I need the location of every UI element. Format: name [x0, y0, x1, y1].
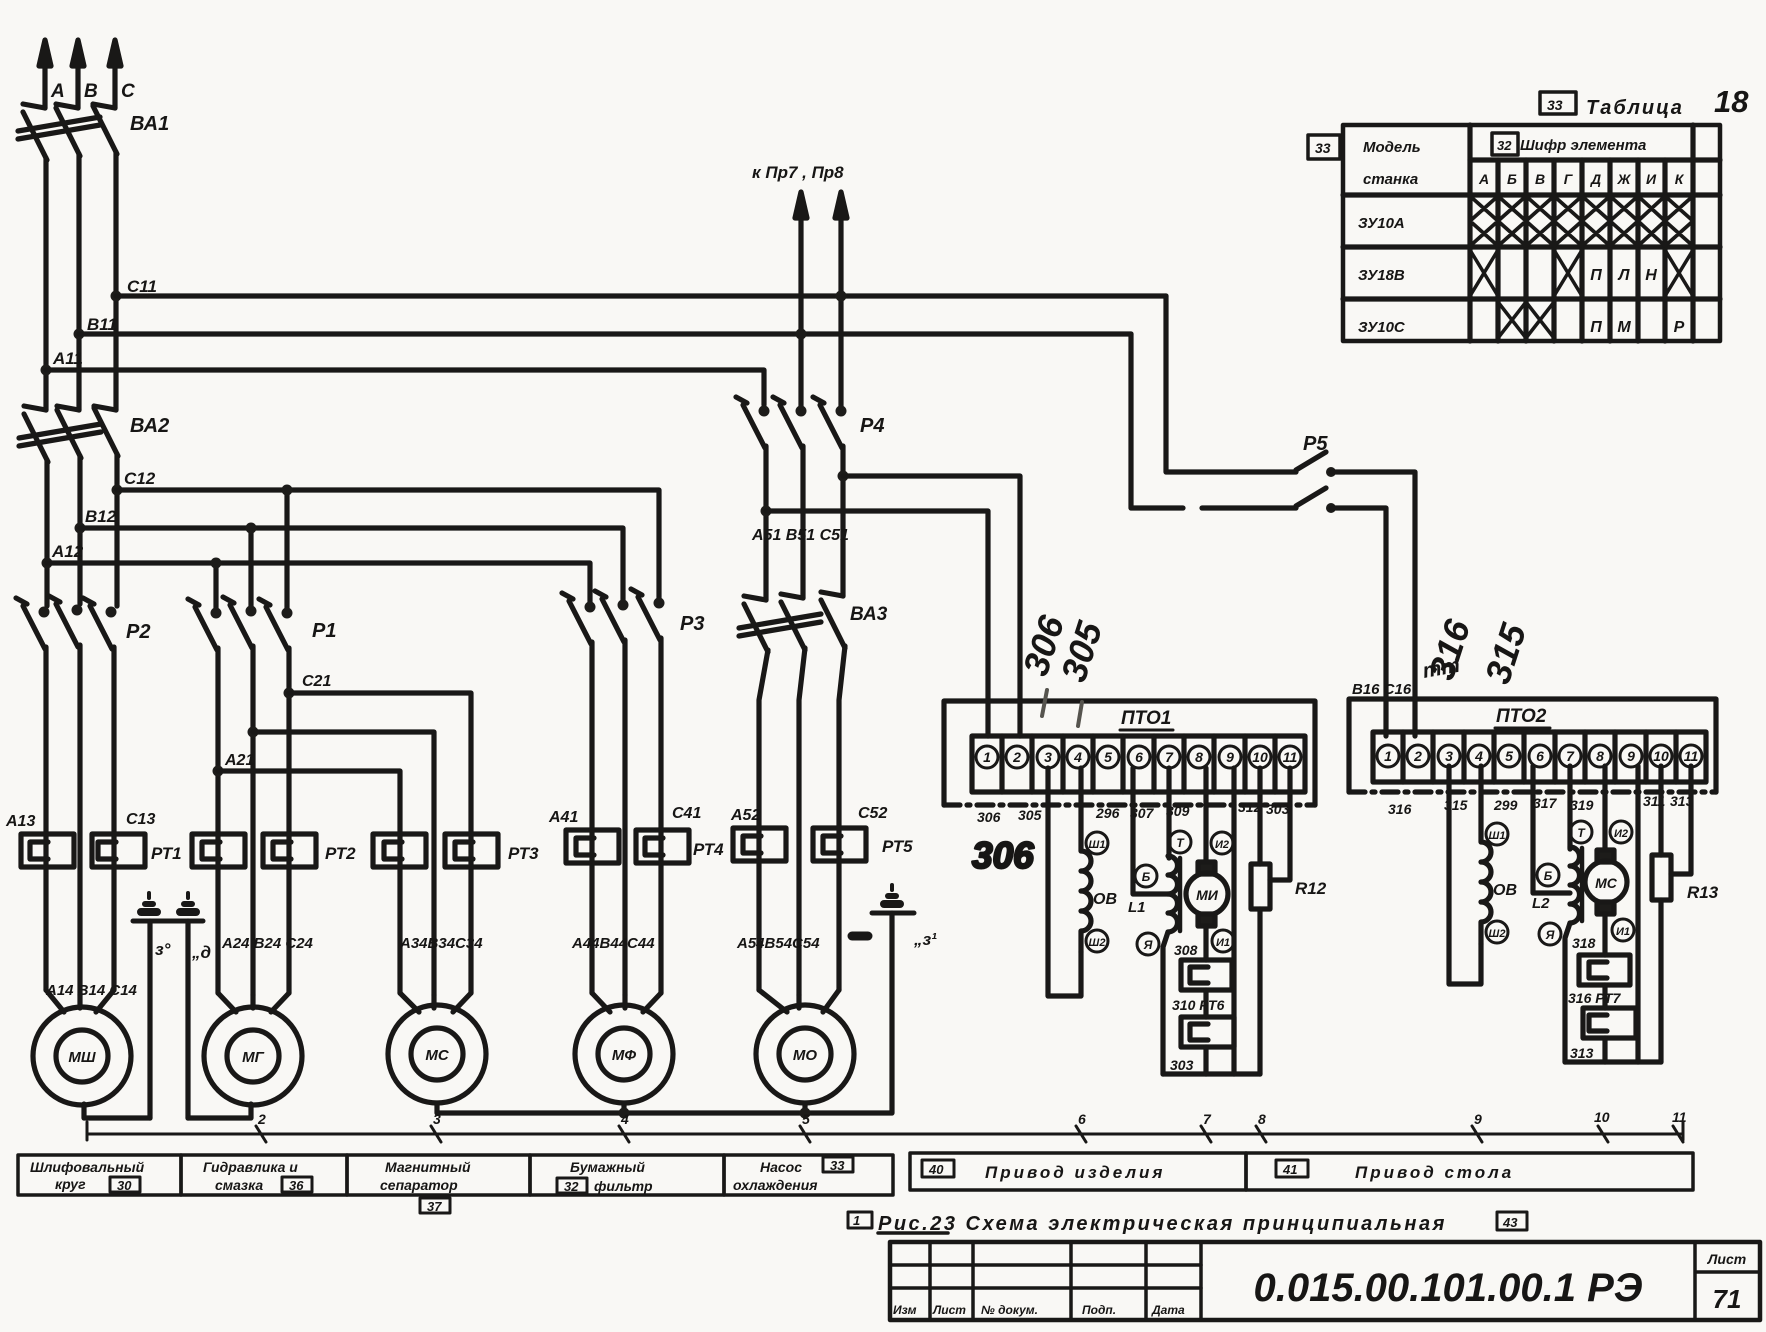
- contactor P2: [16, 596, 117, 649]
- svg-text:9: 9: [1226, 749, 1234, 765]
- terminal block PTO1 outer box: [944, 701, 1315, 805]
- thermal relay RT3 heater A: [373, 834, 426, 867]
- wire BA3 phase A to RT5: [759, 650, 768, 990]
- dc motor MC: [1585, 766, 1634, 955]
- svg-text:Гидравлика и: Гидравлика и: [203, 1159, 298, 1175]
- function box 3 magnetic separator: [347, 1155, 530, 1214]
- svg-text:МШ: МШ: [68, 1049, 95, 1066]
- svg-text:33: 33: [1547, 97, 1563, 113]
- choke L1: [1128, 768, 1191, 1074]
- svg-text:И: И: [1646, 171, 1657, 187]
- svg-text:№ докум.: № докум.: [981, 1303, 1038, 1317]
- svg-text:Я: Я: [1143, 938, 1153, 952]
- svg-text:316: 316: [1388, 801, 1412, 817]
- pin label B (PTO1): [1135, 865, 1157, 887]
- svg-text:303: 303: [1266, 801, 1290, 817]
- thermal relay RT7 heater 1: [1579, 955, 1630, 985]
- svg-text:1: 1: [983, 749, 991, 765]
- field coil OB (PTO1): [1081, 768, 1117, 952]
- svg-text:5: 5: [1104, 749, 1112, 765]
- thermal relay RT2 heater A: [192, 834, 245, 867]
- svg-text:МС: МС: [1595, 875, 1618, 891]
- table ref box 33 left: [1308, 135, 1340, 159]
- svg-text:L1: L1: [1128, 899, 1146, 916]
- wire P4 phase C to BA3: [840, 446, 845, 596]
- svg-text:МО: МО: [793, 1047, 817, 1064]
- svg-text:Насос: Насос: [760, 1159, 802, 1175]
- wire P3 phase C to RT4: [658, 638, 663, 993]
- svg-text:4: 4: [1474, 748, 1483, 764]
- motor M3 (magnetic separator): [388, 993, 486, 1103]
- svg-text:Р4: Р4: [860, 415, 884, 437]
- thermal relay RT2 heater C: [263, 834, 316, 867]
- svg-text:Ш1: Ш1: [1089, 839, 1106, 851]
- svg-text:станка: станка: [1363, 171, 1418, 188]
- svg-text:310 РТ6: 310 РТ6: [1172, 997, 1225, 1013]
- svg-text:7: 7: [1203, 1111, 1212, 1127]
- svg-text:306: 306: [972, 835, 1034, 876]
- phase input arrows A B C: [39, 40, 121, 108]
- svg-text:32: 32: [1497, 138, 1512, 153]
- svg-text:С41: С41: [672, 805, 701, 822]
- motor M4 (paper filter): [575, 993, 673, 1103]
- svg-text:РТ4: РТ4: [693, 840, 724, 859]
- svg-text:33: 33: [1315, 140, 1331, 156]
- svg-text:30: 30: [117, 1178, 132, 1193]
- wire P4 phase A to BA3: [763, 446, 768, 600]
- svg-text:Шлифовальный: Шлифовальный: [30, 1159, 145, 1175]
- svg-text:Шифр элемента: Шифр элемента: [1520, 137, 1646, 154]
- handwritten 306 305 tilted: [1015, 610, 1111, 687]
- svg-text:ВА2: ВА2: [130, 415, 169, 437]
- svg-text:37: 37: [427, 1199, 442, 1214]
- row ZU18V marks: [1470, 250, 1693, 296]
- svg-text:8: 8: [1596, 748, 1604, 764]
- svg-text:А: А: [50, 81, 65, 102]
- svg-text:ПТО2: ПТО2: [1496, 706, 1547, 727]
- wire P3 phase B to motor M4: [622, 640, 627, 995]
- row ZU10A X marks: [1470, 196, 1693, 246]
- svg-text:9: 9: [1627, 748, 1635, 764]
- svg-text:охлаждения: охлаждения: [733, 1177, 818, 1193]
- wire to fuses Pr7 Pr8: [795, 192, 847, 411]
- svg-text:308: 308: [1174, 942, 1198, 958]
- svg-text:41: 41: [1282, 1162, 1297, 1177]
- svg-text:3: 3: [1445, 748, 1453, 764]
- svg-text:ВА1: ВА1: [130, 113, 169, 135]
- svg-text:ОВ: ОВ: [1493, 882, 1517, 899]
- thermal relay RT4 heater C: [636, 830, 689, 863]
- node Pr8 tap on C11: [836, 291, 847, 302]
- svg-text:„з¹: „з¹: [913, 930, 937, 949]
- svg-text:МИ: МИ: [1196, 887, 1219, 903]
- svg-text:ЗУ10А: ЗУ10А: [1358, 215, 1405, 232]
- wire phase C from BA2 to P2: [114, 454, 119, 606]
- svg-text:А41: А41: [548, 809, 578, 826]
- svg-text:Т: Т: [1176, 836, 1185, 850]
- table Tablitsa 18: [1343, 125, 1720, 341]
- wire PTO2 t3 loop to OB coil: [1449, 766, 1481, 984]
- svg-text:Ш2: Ш2: [1089, 937, 1106, 949]
- thermal relay RT3 heater C: [445, 834, 498, 867]
- svg-text:40: 40: [928, 1162, 944, 1177]
- svg-text:Б: Б: [1507, 171, 1517, 187]
- wire bus B12: [80, 528, 623, 603]
- svg-text:А21: А21: [224, 752, 254, 769]
- handwritten 316 315 tilted: [1421, 614, 1535, 689]
- svg-text:круг: круг: [55, 1176, 86, 1192]
- svg-text:А52: А52: [730, 807, 760, 824]
- table ref box 32 header: [1492, 133, 1518, 155]
- node A21 junction: [213, 766, 224, 777]
- svg-text:А11: А11: [52, 349, 83, 368]
- wire motor M2 to earth wire: [188, 1104, 251, 1118]
- thermal relay RT1 heater A: [21, 834, 74, 867]
- svg-text:7: 7: [1566, 748, 1575, 764]
- wire phase C down from BA1 to BA2: [113, 152, 118, 410]
- svg-text:Привод изделия: Привод изделия: [985, 1163, 1165, 1182]
- label PTO1: [1120, 708, 1173, 730]
- wire motors 3-5 common earth bus: [437, 913, 892, 1113]
- earth symbol right: [852, 885, 914, 936]
- svg-text:М: М: [1617, 319, 1631, 336]
- svg-text:11: 11: [1684, 748, 1699, 764]
- svg-text:Магнитный: Магнитный: [385, 1159, 471, 1175]
- svg-text:2: 2: [1012, 749, 1021, 765]
- circuit breaker BA1: [18, 104, 117, 160]
- svg-text:А34В34С34: А34В34С34: [399, 935, 483, 952]
- field coil OB (PTO2): [1481, 766, 1517, 944]
- contactor P3: [562, 589, 665, 644]
- wire P1 phase A to RT2: [215, 648, 220, 993]
- svg-text:319: 319: [1570, 797, 1594, 813]
- svg-text:Д: Д: [1590, 171, 1601, 187]
- svg-text:МС: МС: [425, 1047, 449, 1064]
- svg-text:R13: R13: [1687, 883, 1719, 902]
- wire PTO2 t9 down: [1635, 766, 1640, 1062]
- thermal relay RT1 heater C: [92, 834, 145, 867]
- svg-text:1: 1: [1384, 748, 1392, 764]
- wire bus A11: [46, 370, 764, 405]
- svg-text:И2: И2: [1215, 839, 1229, 851]
- svg-text:Лист: Лист: [1707, 1251, 1746, 1267]
- wire PTO2 t11 to R13 tap: [1671, 766, 1691, 874]
- svg-text:з°: з°: [155, 940, 171, 959]
- PTO2 wire number labels: [1388, 793, 1694, 817]
- svg-text:А13: А13: [5, 813, 35, 830]
- wire PTO1 t3 loop to OB coil: [1048, 768, 1081, 996]
- svg-text:В12: В12: [85, 507, 117, 526]
- wire phase B down from BA1 to BA2: [76, 154, 81, 410]
- contactor P4: [736, 397, 847, 448]
- wire P2 phase B to motor M1: [77, 645, 82, 995]
- svg-text:С12: С12: [124, 469, 156, 488]
- svg-text:Привод стола: Привод стола: [1355, 1163, 1514, 1182]
- svg-text:4: 4: [1073, 749, 1082, 765]
- svg-text:смазка: смазка: [215, 1177, 263, 1193]
- svg-text:Б: Б: [1142, 870, 1151, 884]
- thermal relay RT6 heater 1: [1181, 960, 1232, 990]
- wire A21 branch to RT3: [218, 771, 400, 993]
- svg-text:3: 3: [1044, 749, 1052, 765]
- svg-text:0.015.00.101.00.1 РЭ: 0.015.00.101.00.1 РЭ: [1253, 1266, 1642, 1310]
- svg-text:8: 8: [1258, 1111, 1266, 1127]
- resistor R12: [1251, 768, 1327, 1074]
- svg-text:ВА3: ВА3: [850, 604, 888, 625]
- svg-text:ЗУ18В: ЗУ18В: [1358, 267, 1405, 284]
- wire PTO1 t6 tap to L1: [1133, 768, 1168, 894]
- svg-text:11: 11: [1672, 1109, 1687, 1125]
- svg-text:МФ: МФ: [612, 1047, 636, 1064]
- wire P1 phase C to RT2: [286, 648, 291, 993]
- label PTO2: [1495, 706, 1550, 728]
- function box 6 workpiece drive: [910, 1153, 1246, 1190]
- svg-text:Таблица: Таблица: [1586, 97, 1684, 119]
- svg-text:„д: „д: [191, 943, 211, 962]
- svg-text:К: К: [1675, 171, 1685, 187]
- thermal relay RT5 heater A: [733, 828, 786, 861]
- node A11 junction: [41, 365, 52, 376]
- function box 7 table drive: [1246, 1153, 1693, 1190]
- svg-text:С21: С21: [302, 673, 331, 690]
- svg-text:к Пр7 , Пр8: к Пр7 , Пр8: [752, 163, 844, 182]
- svg-text:РТ1: РТ1: [151, 844, 182, 863]
- svg-text:С13: С13: [126, 811, 155, 828]
- motor M1 (grinding wheel): [33, 990, 131, 1105]
- svg-text:Р1: Р1: [312, 620, 336, 642]
- node C12 junction: [112, 485, 123, 496]
- PTO2 terminal pins 1-11: [1377, 745, 1702, 767]
- node A51 branch junction: [761, 506, 772, 517]
- function box 5 coolant pump: [724, 1155, 893, 1195]
- PTO1 terminal pins 1-11: [976, 746, 1301, 768]
- svg-text:6: 6: [1135, 749, 1143, 765]
- svg-text:С: С: [121, 81, 135, 102]
- svg-text:А: А: [1478, 171, 1489, 187]
- thermal relay RT5 heater C: [813, 828, 866, 861]
- label Tablitsa 18: [1540, 84, 1749, 119]
- node C11 junction: [111, 291, 122, 302]
- svg-text:303: 303: [1170, 1057, 1194, 1073]
- wire motor M1 to earth wire: [84, 1104, 150, 1118]
- function box 1 grinding wheel: [18, 1155, 181, 1195]
- terminal strip PTO1: [972, 736, 1305, 792]
- node C51 branch junction: [838, 471, 849, 482]
- svg-text:Дата: Дата: [1151, 1303, 1185, 1317]
- svg-text:10: 10: [1594, 1109, 1610, 1125]
- svg-text:РТ3: РТ3: [508, 844, 539, 863]
- svg-text:В16 С16: В16 С16: [1352, 681, 1412, 698]
- wire BA3 phase C to RT5: [839, 646, 845, 990]
- svg-text:И1: И1: [1216, 937, 1230, 949]
- svg-text:В: В: [1535, 171, 1545, 187]
- svg-text:А51 В51 С51: А51 В51 С51: [751, 527, 849, 544]
- wire BA3 phase B to motor M5: [799, 648, 805, 995]
- svg-text:С52: С52: [858, 805, 887, 822]
- svg-text:П: П: [1590, 267, 1602, 284]
- svg-text:4: 4: [620, 1111, 629, 1127]
- thermal relay RT6 heater 2: [1181, 990, 1234, 1074]
- node A12 junction: [42, 558, 53, 569]
- svg-text:Р2: Р2: [126, 621, 150, 643]
- wire phase A from BA2 to P2: [44, 460, 49, 606]
- svg-text:А24 В24 С24: А24 В24 С24: [221, 935, 314, 952]
- svg-text:А54В54С54: А54В54С54: [736, 935, 820, 952]
- wire PTO2 bottom bus 313: [1565, 1059, 1661, 1064]
- svg-text:317: 317: [1533, 795, 1558, 811]
- svg-text:А12: А12: [51, 542, 84, 561]
- node B12 junction: [75, 523, 86, 534]
- svg-text:Н: Н: [1645, 267, 1657, 284]
- row ZU10C marks: [1498, 302, 1685, 338]
- svg-text:МГ: МГ: [242, 1049, 264, 1066]
- dimension tick numbers: [257, 1109, 1687, 1127]
- svg-text:Г: Г: [1564, 171, 1574, 187]
- node B11 junction: [74, 329, 85, 340]
- thermal relay RT7 heater 2: [1583, 985, 1636, 1062]
- svg-text:299: 299: [1493, 797, 1518, 813]
- figure caption: [848, 1212, 1527, 1235]
- svg-text:1: 1: [853, 1213, 860, 1228]
- motor M5 (coolant pump): [756, 990, 854, 1103]
- wire B21 branch to motor M3: [253, 732, 434, 995]
- svg-text:Лист: Лист: [932, 1303, 966, 1317]
- svg-text:Ш2: Ш2: [1489, 928, 1506, 940]
- svg-text:С11: С11: [127, 277, 157, 296]
- earth symbol for M1/M2: [133, 893, 203, 921]
- svg-text:РТ5: РТ5: [882, 837, 913, 856]
- svg-text:2: 2: [257, 1111, 266, 1127]
- wire P1 phase B to motor M2: [250, 646, 255, 995]
- svg-text:Ш1: Ш1: [1489, 830, 1506, 842]
- svg-text:Я: Я: [1545, 928, 1555, 942]
- svg-text:Рис.23 Схема электрическая п: Рис.23 Схема электрическая принципиальна…: [878, 1213, 1447, 1235]
- node B21 junction: [248, 727, 259, 738]
- PTO1 wire number labels: [977, 799, 1290, 825]
- svg-text:33: 33: [830, 1158, 845, 1173]
- svg-text:А44В44С44: А44В44С44: [571, 935, 655, 952]
- node M4 earth junction: [619, 1108, 630, 1119]
- svg-text:296: 296: [1095, 805, 1120, 821]
- svg-text:318: 318: [1572, 935, 1596, 951]
- wire earth 1 down: [147, 921, 152, 1118]
- node M5 earth junction: [800, 1108, 811, 1119]
- wire bus B11: [79, 331, 1131, 336]
- svg-text:18: 18: [1714, 84, 1749, 119]
- resistor R13: [1652, 766, 1719, 1062]
- svg-text:Р3: Р3: [680, 613, 704, 635]
- svg-text:Модель: Модель: [1363, 139, 1421, 156]
- svg-text:11: 11: [1283, 749, 1298, 765]
- svg-text:71: 71: [1713, 1284, 1742, 1314]
- svg-text:7: 7: [1165, 749, 1174, 765]
- svg-text:ПТО1: ПТО1: [1121, 708, 1171, 729]
- svg-text:Бумажный: Бумажный: [570, 1159, 645, 1175]
- svg-text:6: 6: [1536, 748, 1544, 764]
- svg-text:2: 2: [1413, 748, 1422, 764]
- svg-text:9: 9: [1474, 1111, 1482, 1127]
- svg-text:36: 36: [289, 1178, 304, 1193]
- function box 2 hydraulics: [181, 1155, 347, 1195]
- motor M2 (hydraulics): [204, 993, 302, 1105]
- svg-text:Т: Т: [1577, 826, 1586, 840]
- thermal relay RT4 heater A: [566, 830, 619, 863]
- node Pr7 tap on B11: [796, 329, 807, 340]
- svg-text:А14 В14 С14: А14 В14 С14: [45, 982, 138, 999]
- choke L2: [1532, 766, 1592, 1062]
- svg-text:Р: Р: [1674, 319, 1685, 336]
- wire earth 2 down: [185, 921, 190, 1118]
- dimension line with position ticks: [87, 1122, 1683, 1142]
- svg-text:Изм: Изм: [893, 1303, 917, 1317]
- svg-text:ЗУ10С: ЗУ10С: [1358, 319, 1406, 336]
- wire PTO1 bottom bus 303: [1163, 1071, 1260, 1076]
- svg-text:И2: И2: [1614, 828, 1628, 840]
- svg-text:РТ2: РТ2: [325, 844, 356, 863]
- svg-text:В11: В11: [87, 315, 117, 334]
- title block: [890, 1242, 1760, 1320]
- svg-text:306: 306: [977, 809, 1001, 825]
- wire P3 phase A to RT4: [589, 642, 594, 993]
- wire C51 branch to PTO1 terminal 2: [843, 476, 1020, 736]
- function box 4 paper filter: [530, 1155, 724, 1195]
- svg-text:5: 5: [802, 1111, 810, 1127]
- dc motor MI: [1186, 768, 1234, 960]
- circuit breaker BA2: [19, 406, 118, 462]
- svg-text:Ж: Ж: [1617, 171, 1632, 187]
- svg-text:П: П: [1590, 319, 1602, 336]
- svg-text:L2: L2: [1532, 895, 1550, 912]
- svg-text:6: 6: [1078, 1111, 1086, 1127]
- svg-text:43: 43: [1502, 1215, 1518, 1230]
- svg-text:10: 10: [1653, 748, 1669, 764]
- switch P5: [1131, 296, 1415, 736]
- svg-text:R12: R12: [1295, 879, 1327, 898]
- wire bus C12: [117, 490, 659, 601]
- wire C21 branch to RT3: [289, 693, 471, 993]
- wire bus C11: [116, 293, 1166, 298]
- svg-text:313: 313: [1570, 1045, 1594, 1061]
- wire P4 phase B to BA3: [800, 446, 805, 598]
- svg-text:8: 8: [1195, 749, 1203, 765]
- svg-text:Л: Л: [1618, 267, 1631, 284]
- wire A51 branch to PTO1 terminal 1: [766, 511, 988, 736]
- svg-text:сепаратор: сепаратор: [380, 1177, 458, 1193]
- svg-text:фильтр: фильтр: [594, 1178, 653, 1194]
- wire P2 phase C to RT1: [111, 647, 116, 990]
- terminal block PTO2 outer box: [1349, 699, 1716, 792]
- svg-text:305: 305: [1018, 807, 1042, 823]
- wire bus A12: [47, 563, 590, 605]
- svg-text:В: В: [84, 81, 98, 102]
- contactor P1: [188, 485, 293, 651]
- svg-text:3: 3: [433, 1111, 441, 1127]
- wire PTO2 t6 tap to L2: [1533, 766, 1570, 893]
- svg-text:5: 5: [1505, 748, 1513, 764]
- svg-text:10: 10: [1252, 749, 1268, 765]
- wire P2 phase A to RT1: [43, 647, 48, 990]
- svg-text:Б: Б: [1544, 869, 1553, 883]
- terminal strip PTO2: [1373, 732, 1706, 782]
- circuit breaker BA3: [739, 592, 845, 652]
- wire PTO1 t11 to R12 tap: [1270, 768, 1290, 880]
- pin label B (PTO2): [1537, 864, 1559, 886]
- svg-text:316 РТ7: 316 РТ7: [1568, 990, 1622, 1006]
- node C21 junction: [284, 688, 295, 699]
- svg-text:И1: И1: [1616, 926, 1630, 938]
- svg-text:ОВ: ОВ: [1093, 891, 1117, 908]
- wire phase B from BA2 to P2: [77, 456, 82, 604]
